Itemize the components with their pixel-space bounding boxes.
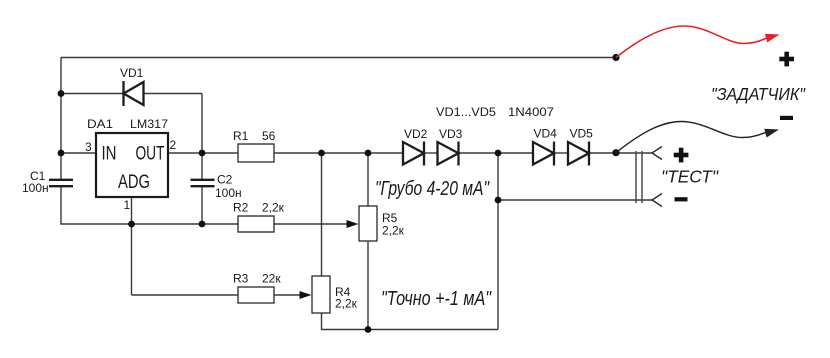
wire black flying lead to TEST plus <box>616 122 767 153</box>
svg-text:R2: R2 <box>233 201 249 215</box>
wire OUT pin to R1 <box>168 152 238 154</box>
wire left vertical lower <box>60 187 62 225</box>
wire VD5 to connector <box>589 152 652 154</box>
wire VD1 anode branch <box>61 93 123 95</box>
svg-text:VD1: VD1 <box>120 66 144 80</box>
svg-text:VD1...VD5: VD1...VD5 <box>436 105 496 119</box>
wire R1 to VD2 <box>274 152 403 154</box>
wire R5 top lead <box>367 153 369 206</box>
wire R3 to R4 wiper <box>274 294 301 296</box>
wire ADG pin 1 vertical <box>131 197 133 295</box>
svg-text:R1: R1 <box>233 129 249 143</box>
capacitor C2 <box>191 180 215 186</box>
connector XS1 body <box>636 151 642 203</box>
svg-text:"ТЕСТ": "ТЕСТ" <box>661 167 719 187</box>
svg-text:VD2: VD2 <box>404 127 428 141</box>
svg-text:VD3: VD3 <box>439 127 463 141</box>
svg-text:3: 3 <box>85 140 92 154</box>
wire C2 vertical lower <box>201 187 203 225</box>
minus terminal TEST <box>675 197 688 201</box>
svg-text:"Грубо 4-20 мА": "Грубо 4-20 мА" <box>375 178 490 200</box>
wire bottom rail to R2 <box>60 223 238 225</box>
wire pin1 to R3 <box>132 294 239 296</box>
black arrowhead <box>764 129 779 138</box>
wire VD1 down to OUT node <box>201 94 203 154</box>
svg-text:IN: IN <box>102 144 117 165</box>
svg-text:ADG: ADG <box>118 172 150 193</box>
svg-text:22к: 22к <box>262 272 281 286</box>
wire test minus lead <box>498 199 652 201</box>
minus terminal ZADATCHIK <box>780 116 793 120</box>
wire VD2 to VD3 <box>424 152 438 154</box>
svg-text:100н: 100н <box>22 181 49 195</box>
svg-text:LM317: LM317 <box>130 117 168 131</box>
diode VD1 <box>124 81 144 106</box>
svg-text:2: 2 <box>170 138 177 152</box>
diode VD5 <box>568 142 589 166</box>
resistor R1 <box>238 144 274 162</box>
potentiometer R4 <box>312 276 330 313</box>
wire VD3 to VD4 <box>459 152 534 154</box>
wire left vertical upper <box>60 57 62 179</box>
wire R4 bottom lead <box>321 313 323 330</box>
wire R5 bottom lead <box>367 241 369 330</box>
diode VD2 <box>403 142 424 166</box>
svg-text:C2: C2 <box>217 173 233 187</box>
wire lower rail <box>321 329 498 331</box>
wire red flying lead to ZADATCHIK plus <box>616 26 768 58</box>
wire VD4 to VD5 <box>554 152 568 154</box>
svg-text:OUT: OUT <box>136 144 165 165</box>
svg-text:2,2к: 2,2к <box>262 201 285 215</box>
svg-text:DA1: DA1 <box>87 117 113 131</box>
svg-text:VD4: VD4 <box>534 127 558 141</box>
wire right vertical x499 <box>497 153 499 330</box>
resistor R2 <box>238 216 274 232</box>
plus terminal ZADATCHIK <box>779 52 794 67</box>
wire R2 to R5 wiper <box>274 223 349 225</box>
svg-text:2,2к: 2,2к <box>335 297 358 311</box>
svg-text:"ЗАДАТЧИК": "ЗАДАТЧИК" <box>711 84 806 104</box>
plus terminal TEST <box>674 148 689 163</box>
op-amp U1 regulator box DA1 LM317 <box>96 133 168 197</box>
potentiometer R4 wiper arrow <box>300 291 312 299</box>
svg-text:"Точно +-1 мА": "Точно +-1 мА" <box>381 288 492 310</box>
wire IN pin <box>61 152 96 154</box>
potentiometer R5 <box>359 206 377 241</box>
wire C2 vertical upper <box>201 153 203 179</box>
capacitor C1 <box>49 180 73 186</box>
diode VD3 <box>438 142 459 166</box>
resistor R3 <box>238 287 274 303</box>
connector contact minus <box>652 194 662 207</box>
diode VD4 <box>533 142 554 166</box>
connector contact plus <box>652 147 662 160</box>
wire VD1 cathode branch <box>144 93 203 95</box>
wire node A vertical to R4 <box>321 153 323 276</box>
wire top rail <box>61 57 616 59</box>
svg-text:100н: 100н <box>215 186 242 200</box>
potentiometer R5 wiper arrow <box>347 220 359 228</box>
svg-text:1: 1 <box>124 198 131 212</box>
svg-text:56: 56 <box>262 129 276 143</box>
svg-text:2,2к: 2,2к <box>382 224 405 238</box>
red arrowhead <box>765 34 780 43</box>
svg-text:1N4007: 1N4007 <box>508 105 554 119</box>
svg-text:R3: R3 <box>233 272 249 286</box>
svg-text:VD5: VD5 <box>570 127 594 141</box>
